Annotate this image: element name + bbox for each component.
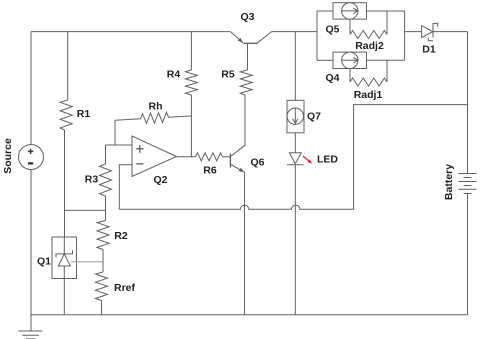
wire top rail right segment (Q3 collector to current-source block) — [272, 31, 318, 33]
current source Q4 arrow — [341, 58, 358, 63]
wire R3 bottom lead — [105, 196, 107, 210]
wire Q7 to LED — [294, 133, 296, 153]
resistor R5 — [240, 70, 252, 95]
wire D1 anode — [405, 31, 422, 33]
wire Q5 branch right — [367, 10, 405, 12]
wire R4 top lead — [190, 32, 192, 70]
wire Q6 emitter down across sense line to bottom rail — [244, 172, 246, 314]
wire R4 bottom to op-amp output node — [190, 95, 192, 157]
wire Radj1 left lead — [349, 68, 351, 82]
wire Q5 branch left — [317, 10, 333, 12]
wire current-source block left node — [316, 11, 318, 60]
svg-text:Rref: Rref — [114, 282, 136, 294]
svg-text:R3: R3 — [85, 173, 99, 185]
svg-text:Q7: Q7 — [307, 110, 321, 122]
wire right edge top — [467, 32, 469, 174]
wire Q1 internal top — [63, 237, 65, 254]
svg-text:R6: R6 — [203, 164, 217, 176]
svg-text:R4: R4 — [167, 69, 181, 81]
svg-text:Q1: Q1 — [37, 255, 51, 267]
wire R2 top lead — [105, 210, 107, 220]
resistor Radj1 — [350, 78, 387, 86]
wire sense line (minus input feedback) with hops — [119, 105, 467, 210]
transistor Q6 collector — [230, 145, 245, 156]
transistor Q6 emitter with arrow — [230, 164, 244, 172]
svg-text:Q4: Q4 — [325, 72, 339, 84]
resistor R6 — [196, 153, 223, 161]
svg-text:Q2: Q2 — [153, 174, 167, 186]
svg-text:Source: Source — [2, 138, 14, 174]
svg-text:Q6: Q6 — [250, 156, 264, 168]
transistor Q3 collector — [257, 32, 272, 44]
resistor Radj2 — [350, 31, 387, 39]
resistor R1 — [60, 100, 72, 130]
diode D1 schottky cathode bar — [428, 23, 437, 40]
wire current-source block right node — [404, 11, 406, 60]
current source Q7 box — [287, 100, 304, 133]
transistor Q6 base bar — [229, 154, 231, 168]
wire R1 top lead — [67, 32, 69, 100]
battery B1 plates — [458, 174, 476, 194]
voltage source V1 (Source) — [19, 145, 44, 170]
wire bottom rail — [31, 314, 468, 316]
transistor Q3 base bar — [244, 42, 258, 44]
wire Radj2 left lead — [349, 19, 351, 35]
LED cathode bar — [287, 164, 304, 166]
wire source bottom — [30, 170, 32, 315]
wire R6 right lead — [223, 156, 231, 158]
svg-text:R2: R2 — [114, 230, 128, 242]
wire Q4 branch right — [367, 59, 405, 61]
wire Q3 base lead to R5 — [247, 43, 249, 70]
wire op-amp plus input — [106, 144, 133, 146]
wire source top — [30, 32, 32, 145]
LED anode triangle — [289, 153, 301, 164]
op-amp Q2 — [132, 136, 177, 177]
diode D1 triangle — [422, 26, 433, 38]
resistor Rh — [115, 112, 191, 123]
wire Q4 branch left — [317, 59, 333, 61]
wire R1 bottom to Q1 box — [64, 130, 66, 237]
wire LED to bottom rail — [294, 165, 296, 315]
wire Q1 bottom to ground rail — [63, 266, 65, 315]
wire R5 bottom lead / Q6 collector up — [244, 95, 246, 145]
resistor Rref — [96, 272, 108, 301]
current source Q4 box — [333, 52, 367, 68]
svg-text:LED: LED — [317, 153, 338, 165]
wire R3 top lead — [105, 145, 107, 164]
wire D1 cathode to right edge — [433, 31, 468, 33]
zener anode triangle of Q1 — [58, 254, 70, 266]
svg-text:Rh: Rh — [149, 100, 163, 112]
current source Q7 arrow — [293, 108, 298, 124]
svg-text:D1: D1 — [422, 43, 436, 55]
zener cathode bar of Q1 — [56, 250, 73, 257]
resistor R4 — [185, 70, 197, 95]
svg-text:Q3: Q3 — [240, 11, 254, 23]
wire Radj2 right lead — [386, 11, 388, 35]
svg-text:Radj1: Radj1 — [354, 89, 383, 101]
wire Rh left lead down — [114, 120, 116, 145]
svg-text:R1: R1 — [77, 108, 91, 120]
wire Q1 reference tap to R2/Rref junction — [71, 261, 104, 263]
current source Q5 box — [333, 3, 367, 19]
svg-text:Battery: Battery — [443, 164, 455, 200]
current source Q4 circle — [342, 52, 358, 68]
wire op-amp minus input — [119, 165, 132, 210]
shunt regulator Q1 box — [52, 237, 77, 279]
wire right edge bottom — [467, 194, 469, 315]
current source Q7 circle — [287, 108, 303, 124]
wire Q7 column top — [294, 32, 296, 101]
svg-text:R5: R5 — [221, 68, 235, 80]
transistor Q3 emitter with arrow — [231, 32, 244, 43]
ground — [18, 315, 42, 339]
wire left mid rail (R1 column to R3/R2 junction) — [65, 209, 106, 211]
current source Q5 circle — [342, 3, 358, 19]
svg-text:Q5: Q5 — [325, 24, 339, 36]
current source Q5 arrow — [341, 8, 358, 13]
LED red arrow — [303, 156, 310, 162]
resistor R3 — [100, 164, 112, 196]
wire Radj1 right lead — [386, 60, 388, 82]
wire Rref bottom lead — [101, 301, 103, 315]
svg-text:Radj2: Radj2 — [355, 40, 384, 52]
wire top rail left segment — [31, 31, 231, 33]
wire op-amp output — [177, 156, 196, 158]
wire R2 bottom to Rref top — [102, 250, 104, 273]
resistor R2 — [97, 221, 109, 250]
